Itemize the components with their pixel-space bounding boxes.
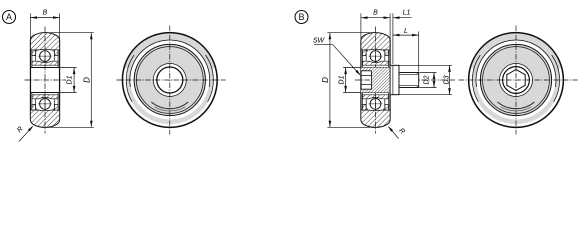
dimension D3 (B view) line with arrows xyxy=(448,65,451,94)
outer circle (crown OD) xyxy=(469,33,564,128)
dimension B (B view) extension lines xyxy=(361,14,393,65)
svg-text:D3: D3 xyxy=(444,75,451,84)
svg-text:SW: SW xyxy=(313,38,326,45)
reflection arc outer xyxy=(501,107,532,111)
dimension B (A view) line with arrows xyxy=(30,16,59,19)
SW leader xyxy=(314,45,362,77)
reflection arc inner xyxy=(151,102,188,109)
crown inner circle top arc xyxy=(476,40,556,87)
view label circle A xyxy=(3,11,16,24)
svg-text:B: B xyxy=(373,10,378,17)
reflection arc inner xyxy=(498,102,535,109)
front A horizontal centerline xyxy=(117,79,226,81)
svg-text:R: R xyxy=(16,126,25,135)
bore circle xyxy=(157,67,183,93)
stud collar xyxy=(390,65,399,94)
dimension D2 (B view) line with arrows xyxy=(433,73,436,88)
dimension L1 (B view) line with outside arrow xyxy=(393,16,412,19)
stud thread body xyxy=(399,73,419,88)
crown edge arc left xyxy=(472,55,480,102)
thread end chamfer xyxy=(417,73,419,88)
outer circle (crown OD) xyxy=(122,33,217,128)
outer ring face circle xyxy=(134,44,205,115)
view label circle B xyxy=(295,11,308,24)
socket bore circle xyxy=(503,67,530,94)
reflection arc outer xyxy=(154,107,185,111)
crown edge arc right xyxy=(206,55,214,102)
seal outer circle xyxy=(483,47,550,114)
dimension D (B view) extension lines xyxy=(327,33,373,128)
front view B xyxy=(459,26,578,135)
highlight rim arc xyxy=(125,68,215,125)
svg-text:B: B xyxy=(43,10,48,17)
svg-text:D1: D1 xyxy=(66,75,73,84)
radius R leader (A view) xyxy=(19,125,34,142)
svg-text:R: R xyxy=(397,127,406,136)
seal outer circle xyxy=(136,47,203,114)
dimension D1 (B view) extension lines xyxy=(343,68,361,93)
svg-text:D1: D1 xyxy=(339,75,346,84)
inner ring circle xyxy=(500,64,533,97)
section B horizontal centerline xyxy=(355,79,455,81)
dimension D (A view) line with arrows xyxy=(90,33,93,128)
front A vertical centerline xyxy=(169,26,171,135)
svg-text:D: D xyxy=(82,77,91,83)
hex socket flats xyxy=(361,75,372,84)
hex socket xyxy=(507,69,525,90)
svg-text:L: L xyxy=(404,28,408,35)
crown edge arc right xyxy=(552,55,560,102)
crown band bottom gray arc xyxy=(129,91,210,122)
dimension D (A view) extension lines xyxy=(48,33,94,128)
thread root lines xyxy=(400,75,418,86)
front B vertical centerline xyxy=(515,26,517,135)
crown edge arc left xyxy=(126,55,134,102)
section view A: roller xyxy=(30,27,59,134)
face white ring xyxy=(132,42,207,117)
outer ring face circle xyxy=(480,44,551,115)
crown inner circle top arc xyxy=(130,40,210,87)
dimension D3 (B view) extension lines xyxy=(394,65,453,94)
section A horizontal centerline xyxy=(25,79,67,81)
stud bore hatch with socket hole xyxy=(361,68,390,93)
dimension B (B view) line with arrows xyxy=(361,16,390,19)
dimension B (A view) extension lines xyxy=(30,14,59,47)
dimension L (B view) extension line xyxy=(418,32,420,72)
section view B: roller xyxy=(361,27,390,134)
radius R leader (B view) xyxy=(387,125,399,139)
highlight rim arc xyxy=(471,68,561,125)
svg-text:B: B xyxy=(298,12,304,22)
face white ring xyxy=(478,42,553,117)
dimension D1 (A view) line with arrows xyxy=(73,68,76,93)
hex socket outline xyxy=(361,71,372,89)
front view A xyxy=(117,26,226,135)
dimension D1 (B view) line with arrows xyxy=(344,68,347,93)
svg-text:A: A xyxy=(6,12,12,22)
inner ring circle xyxy=(153,64,186,97)
dimension D2 (B view) extension lines xyxy=(420,73,437,88)
front B horizontal centerline xyxy=(459,79,578,81)
svg-text:D: D xyxy=(321,77,330,83)
dimension D1 (A view) extension lines xyxy=(60,68,77,93)
svg-text:L1: L1 xyxy=(403,10,411,17)
crown band bottom gray arc xyxy=(476,91,557,122)
svg-text:D2: D2 xyxy=(424,75,431,84)
dimension L (B view) line with arrows xyxy=(393,34,419,37)
dimension D (B view) line with arrows xyxy=(329,33,332,128)
